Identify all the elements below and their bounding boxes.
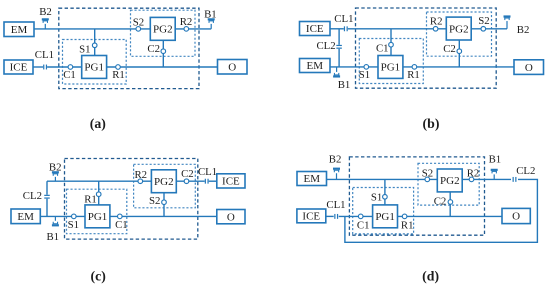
engine ICE (a)	[4, 60, 33, 74]
svg-text:CL2: CL2	[23, 190, 42, 202]
svg-text:B1: B1	[46, 231, 59, 243]
wire: clutch CL1 to ICE (c)	[209, 180, 217, 182]
node S1 (a)	[92, 43, 97, 48]
svg-text:R1: R1	[112, 69, 125, 81]
planetary gear PG2 (d)	[437, 169, 462, 192]
svg-text:R2: R2	[430, 16, 443, 28]
wire: clutch CL2 riser lower (b)	[338, 49, 340, 67]
engine ICE (b)	[300, 22, 331, 36]
output O (b)	[514, 60, 544, 75]
PG1 subsystem boundary (b)	[359, 39, 423, 84]
planetary gear PG2 (c)	[151, 170, 176, 193]
node S2 (b)	[481, 27, 486, 32]
node C1 (c)	[118, 214, 123, 219]
planetary gear PG2 (b)	[446, 17, 471, 40]
svg-text:CL2: CL2	[316, 40, 335, 52]
wire: EM shaft to PG2 sun S2 (a)	[34, 28, 150, 30]
svg-text:EM: EM	[17, 211, 34, 223]
svg-text:(d): (d)	[422, 268, 439, 284]
node S1 (c)	[72, 214, 77, 219]
node R1 (c)	[96, 192, 101, 197]
transmission boundary (c)	[65, 159, 198, 240]
svg-text:R2: R2	[180, 16, 193, 28]
wire: ICE to clutch CL1 (a)	[33, 66, 43, 68]
svg-text:C2: C2	[147, 43, 160, 55]
svg-text:EM: EM	[304, 173, 321, 185]
node C1 (a)	[68, 65, 73, 70]
node S2 (c)	[162, 200, 167, 205]
svg-text:B1: B1	[338, 79, 351, 91]
engine ICE (c)	[217, 174, 245, 188]
output O (a)	[218, 60, 248, 75]
svg-text:R2: R2	[467, 168, 480, 180]
clutch CL1 (d)	[334, 214, 338, 219]
svg-text:O: O	[525, 62, 533, 74]
wire: PG2 ring R2 to brake B1 (a)	[175, 28, 211, 30]
planetary gear PG1 (b)	[378, 56, 403, 79]
wire: clutch CL2 wrap-around to carrier shaft (d)	[345, 179, 538, 242]
clutch CL2 (c)	[44, 195, 50, 199]
svg-text:S2: S2	[422, 168, 433, 180]
transmission boundary (d)	[349, 157, 484, 235]
brake B1 (c)	[52, 216, 59, 226]
wire: PG2 sun S2 to brake B2 (b)	[471, 28, 507, 30]
electric machine EM (b)	[300, 59, 331, 73]
PG2 subsystem boundary (c)	[134, 164, 196, 208]
wire: EM shaft to PG1 sun S1 (c)	[40, 215, 85, 217]
wire: PG1 ring R1 to output O (b)	[403, 66, 514, 68]
svg-text:EM: EM	[307, 60, 324, 72]
planetary gear PG1 (d)	[373, 205, 398, 228]
svg-text:C2: C2	[434, 195, 447, 207]
wire: PG2 carrier C2 to clutch CL1 (c)	[176, 180, 204, 182]
wire: PG1 carrier C1 to output O (c)	[110, 215, 217, 217]
svg-text:PG2: PG2	[449, 23, 469, 35]
transmission boundary (b)	[356, 8, 497, 88]
wire: ICE to clutch CL1 (b)	[330, 28, 344, 30]
svg-text:CL1: CL1	[326, 199, 345, 211]
node R1 (d)	[402, 214, 407, 219]
svg-text:O: O	[227, 211, 235, 223]
electric machine EM (d)	[297, 172, 327, 186]
node C2 (c)	[184, 179, 189, 184]
svg-text:R1: R1	[84, 194, 97, 206]
svg-text:S2: S2	[149, 195, 160, 207]
wire: branch to PG1 ring R1 (c)	[98, 181, 100, 205]
node S1 (b)	[364, 65, 369, 70]
wire: EM shaft to PG1 sun S1 (b)	[330, 66, 378, 68]
svg-text:C1: C1	[115, 219, 128, 231]
clutch CL1 (b)	[344, 26, 348, 31]
wire: PG2 ring R2 to clutch CL2 (d)	[462, 178, 511, 180]
svg-text:B2: B2	[49, 161, 62, 173]
svg-text:B1: B1	[204, 8, 217, 20]
svg-text:PG1: PG1	[84, 62, 104, 74]
svg-text:ICE: ICE	[306, 23, 324, 35]
svg-text:(a): (a)	[90, 116, 106, 132]
wire: branch to PG1 sun S1 (d)	[384, 179, 386, 205]
svg-text:EM: EM	[11, 24, 28, 36]
svg-text:ICE: ICE	[222, 176, 240, 188]
clutch CL2 (d)	[513, 177, 517, 182]
PG1 subsystem boundary (d)	[353, 188, 414, 234]
wire: brake shaft to PG2 ring R2 (c)	[47, 180, 151, 182]
svg-text:CL2: CL2	[516, 165, 535, 177]
PG2 subsystem boundary (d)	[418, 163, 479, 205]
svg-text:B2: B2	[329, 154, 342, 166]
svg-text:S2: S2	[478, 15, 489, 27]
svg-text:B2: B2	[517, 24, 530, 36]
transmission boundary (a)	[59, 8, 199, 88]
node S2 (d)	[425, 177, 430, 182]
svg-text:C1: C1	[376, 42, 389, 54]
svg-text:(b): (b)	[423, 116, 440, 132]
svg-text:B1: B1	[489, 154, 502, 166]
clutch CL1 (a)	[43, 65, 47, 70]
node R1 (b)	[412, 65, 417, 70]
svg-text:PG1: PG1	[88, 211, 108, 223]
electric machine EM (c)	[11, 209, 40, 224]
svg-text:S1: S1	[68, 219, 79, 231]
output O (c)	[217, 210, 245, 224]
wire: PG2 carrier C2 riser (a)	[162, 40, 164, 67]
svg-text:PG1: PG1	[375, 211, 395, 223]
svg-text:ICE: ICE	[302, 211, 320, 223]
engine ICE (d)	[297, 209, 326, 223]
wire: branch to PG1 sun S1 (a)	[94, 29, 96, 56]
planetary gear PG1 (a)	[82, 56, 107, 79]
node R1 (a)	[116, 65, 121, 70]
svg-text:PG1: PG1	[381, 62, 401, 74]
wire: clutch CL2 riser lower (c)	[46, 199, 48, 217]
node C1 (d)	[358, 214, 363, 219]
PG2 subsystem boundary (b)	[427, 12, 492, 56]
node C2 (d)	[448, 200, 453, 205]
svg-text:B2: B2	[39, 6, 52, 18]
svg-text:S1: S1	[79, 44, 90, 56]
wire: PG2 carrier C2 riser (d)	[449, 192, 451, 217]
brake B2 (d)	[333, 168, 340, 180]
svg-text:R1: R1	[407, 69, 420, 81]
svg-text:C2: C2	[443, 43, 456, 55]
brake B2 (c)	[52, 171, 59, 181]
svg-text:C1: C1	[63, 69, 76, 81]
svg-text:CL1: CL1	[35, 49, 54, 61]
electric machine EM (a)	[4, 22, 34, 37]
wire: PG1 ring R1 to output O (d)	[398, 215, 503, 217]
wire: EM shaft to PG2 sun S2 (d)	[327, 178, 438, 180]
wire: clutch CL1 to PG1 carrier C1 (d)	[339, 215, 373, 217]
clutch CL1 (c)	[205, 179, 209, 184]
brake B2 (a)	[42, 18, 49, 29]
wire: PG1 ring R1 to output O (a)	[107, 66, 218, 68]
svg-text:(c): (c)	[91, 268, 106, 284]
planetary gear PG1 (c)	[85, 205, 110, 228]
brake B1 (b)	[333, 67, 340, 78]
wire: branch to PG1 carrier C1 (b)	[390, 29, 392, 56]
svg-text:S2: S2	[133, 16, 144, 28]
wire: clutch CL2 riser upper (b)	[338, 29, 340, 45]
svg-text:PG2: PG2	[440, 175, 460, 187]
wire: clutch CL1 to PG1 carrier C1 (a)	[47, 66, 82, 68]
node S1 (d)	[383, 195, 388, 200]
svg-text:S1: S1	[359, 69, 370, 81]
wire: ICE to clutch CL1 (d)	[326, 215, 334, 217]
PG1 subsystem boundary (a)	[63, 40, 127, 85]
node R2 (c)	[138, 179, 143, 184]
planetary gear PG2 (a)	[150, 17, 175, 40]
wire: PG2 sun S2 riser (c)	[163, 193, 165, 217]
node S2 (a)	[136, 27, 141, 32]
node C2 (b)	[457, 49, 462, 54]
svg-text:O: O	[512, 211, 520, 223]
svg-text:R2: R2	[134, 169, 147, 181]
wire: PG2 carrier C2 riser (b)	[458, 40, 460, 67]
PG1 subsystem boundary (c)	[67, 189, 127, 234]
node R2 (b)	[433, 27, 438, 32]
svg-text:S1: S1	[371, 191, 382, 203]
PG2 subsystem boundary (a)	[131, 10, 196, 56]
brake B1 (a)	[208, 18, 215, 29]
svg-text:PG2: PG2	[154, 176, 174, 188]
svg-text:PG2: PG2	[153, 24, 173, 36]
wire: clutch CL1 to PG2 ring R2 (b)	[348, 28, 447, 30]
node C1 (b)	[389, 42, 394, 47]
node R2 (d)	[469, 177, 474, 182]
svg-text:O: O	[228, 61, 236, 73]
svg-text:C2: C2	[181, 168, 194, 180]
brake B1 (d)	[491, 169, 498, 180]
clutch CL2 (b)	[336, 45, 342, 49]
wire: clutch CL2 riser upper (c)	[46, 181, 48, 195]
node C2 (a)	[161, 49, 166, 54]
output O (d)	[502, 208, 530, 223]
svg-text:R1: R1	[401, 220, 414, 232]
svg-text:CL1: CL1	[334, 13, 353, 25]
svg-text:ICE: ICE	[10, 62, 28, 74]
brake B2 (b)	[504, 15, 511, 28]
node R2 (a)	[184, 27, 189, 32]
svg-text:C1: C1	[357, 220, 370, 232]
svg-text:CL1: CL1	[198, 166, 217, 178]
